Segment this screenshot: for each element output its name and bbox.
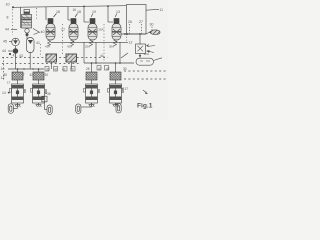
wire V40 down [26,36,28,40]
filter block F2 [66,54,77,62]
pump motor oval hatched [151,30,161,35]
leader diagonal right [121,53,128,58]
wire dashed solenoid lead 26 [129,24,131,34]
svg-text:18: 18 [56,10,60,14]
wheel 4 [116,103,121,113]
svg-text:40: 40 [41,30,45,34]
check valve glyph e [97,66,101,71]
svg-text:8: 8 [7,16,9,20]
check valve glyph f [105,66,109,71]
wire dashed D4 right [124,78,166,80]
leader arrow mark [143,90,148,94]
wire accumulator down [29,53,31,70]
svg-text:42A: 42A [67,45,72,49]
regulator valve SQ [139,34,141,45]
valve V40 top-left body [20,7,22,28]
solenoid valve S2 [68,7,78,46]
svg-text:18: 18 [77,10,81,14]
svg-text:25A: 25A [85,45,90,49]
svg-text:30: 30 [45,73,49,77]
svg-text:42: 42 [106,67,110,71]
svg-text:10: 10 [1,67,5,71]
wheel valve W2 [31,72,48,110]
svg-text:44: 44 [2,49,6,53]
wheel cylinder 1 [8,104,13,114]
wire dashed D2 left [2,63,81,65]
svg-text:11: 11 [160,8,164,12]
wheel cylinder 3 [76,104,81,114]
check ball below V40 [25,29,29,33]
svg-text:17: 17 [125,87,129,91]
wire left bus y69 [8,68,44,70]
solenoid valve S3 [83,6,97,47]
svg-text:41: 41 [36,41,40,45]
wire top bus [13,6,126,8]
svg-text:41A: 41A [45,45,50,49]
check valve glyph b [54,67,58,72]
check valve glyph c [63,67,67,72]
wire S4 drop [119,42,121,63]
svg-text:26: 26 [128,20,132,24]
wire dashed control left [40,44,42,57]
svg-text:45: 45 [3,40,7,44]
wire dashed control S2 [62,24,64,56]
svg-text:47: 47 [54,68,58,72]
wire drop W2 [38,69,40,72]
svg-text:14: 14 [2,91,6,95]
wheel valve W1 [10,72,27,108]
wire drop W4 [115,63,117,72]
wire right bus y63 [84,62,134,64]
wire pump down [15,46,17,49]
check ball 44 [13,49,18,54]
svg-text:30: 30 [123,67,127,71]
svg-text:12: 12 [129,41,133,45]
solenoid valve S4 [107,5,121,46]
wire dashed control S4 [103,24,105,62]
wire dashed D3 right [124,70,166,72]
svg-text:17: 17 [61,28,65,32]
label 11 leader [146,8,159,11]
wheel valve W3 [81,72,100,107]
wire dashed control V40 [36,8,38,20]
wire drop W1 [17,69,19,72]
svg-text:47: 47 [98,67,102,71]
svg-text:44: 44 [5,28,9,32]
pump P45 [12,38,20,46]
svg-text:41: 41 [13,54,17,58]
svg-text:16: 16 [73,8,77,12]
wire F2 drop [70,62,72,69]
svg-text:30: 30 [46,68,50,72]
svg-text:25: 25 [86,67,90,71]
ECU box U30 [127,5,147,35]
filter block F1 [46,54,57,62]
wire F1 drop [50,62,52,69]
solenoid valve S1 [46,7,55,46]
svg-text:10: 10 [6,3,10,7]
svg-text:30: 30 [70,68,74,72]
wire down to reservoir with arrowhead [139,54,141,58]
svg-text:17: 17 [7,81,11,85]
arrow right 1 [147,45,155,47]
svg-text:19: 19 [92,10,96,14]
svg-text:25A: 25A [99,28,104,32]
wire dashed left edge lower [3,57,5,80]
svg-text:42: 42 [62,68,66,72]
wheel 2 [47,105,52,115]
check valve glyph d [71,67,75,72]
wire S3 drop [95,42,97,63]
node junctions on mid bus [73,41,75,43]
wire dashed left control column [12,9,14,35]
reservoir balloon [136,58,154,65]
wheel valve W4 [108,72,125,107]
wire mid bus y42 [51,41,129,43]
svg-text:30A: 30A [144,52,149,56]
svg-text:Fig.1: Fig.1 [137,103,153,110]
node top-left junction [12,6,14,8]
accumulator A41 [27,38,35,53]
node dot 41 [9,53,11,55]
svg-text:30: 30 [4,73,8,77]
svg-text:30A: 30A [109,45,114,49]
wire drop W3 [91,63,93,72]
wire dashed solenoid lead 27 [141,24,143,34]
svg-text:27: 27 [139,20,143,24]
svg-text:36: 36 [47,92,51,96]
arrow right 2 [147,50,154,52]
check valve glyph a [45,67,49,72]
wire dashed D1 full width [2,57,108,59]
svg-text:13: 13 [116,10,120,14]
wire branch x84 [83,42,85,63]
svg-text:30: 30 [150,23,154,27]
